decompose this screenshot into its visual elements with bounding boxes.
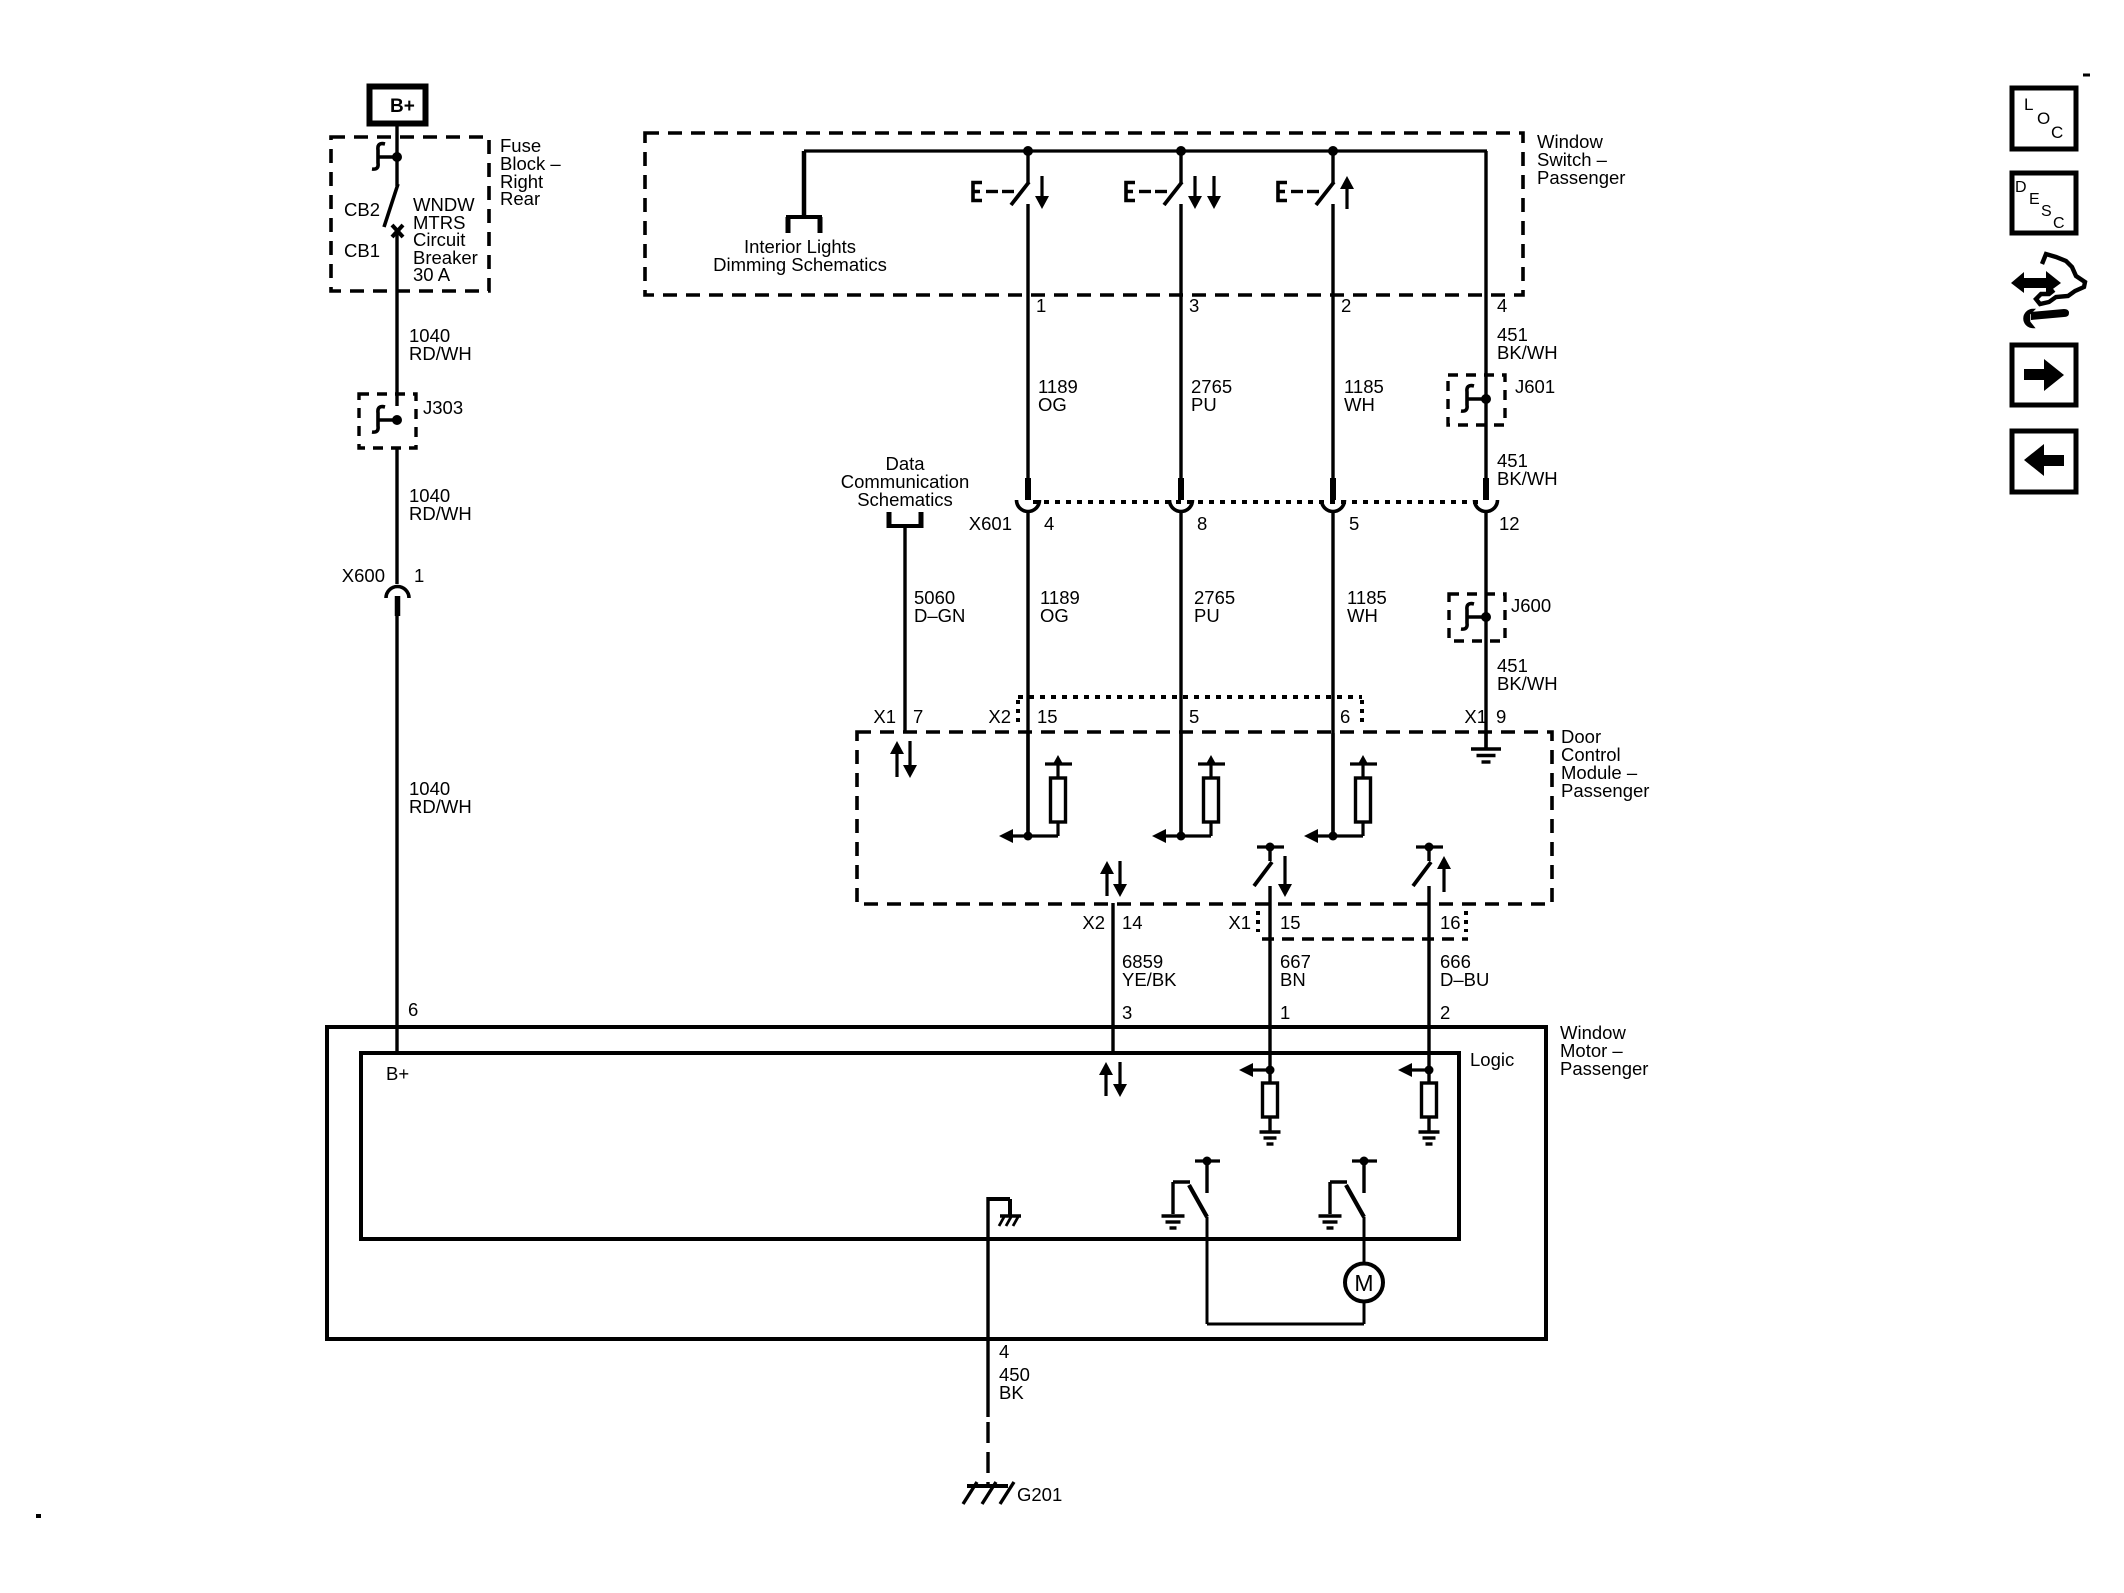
dotted tick right <box>1360 700 1364 727</box>
wire label 1040 RD/WH (3) <box>409 778 472 817</box>
svg-text:D–GN: D–GN <box>914 605 965 626</box>
output switch at pin 15 (down) <box>1254 843 1292 898</box>
svg-text:Dimming Schematics: Dimming Schematics <box>713 254 887 275</box>
svg-text:3: 3 <box>1122 1002 1132 1023</box>
svg-text:X601: X601 <box>969 513 1012 534</box>
svg-text:S: S <box>2041 203 2052 220</box>
svg-text:Passenger: Passenger <box>1560 1058 1648 1079</box>
svg-text:3: 3 <box>1189 295 1199 316</box>
svg-text:5: 5 <box>1189 706 1199 727</box>
wire label 1040 RD/WH (2) <box>409 485 472 524</box>
svg-text:6: 6 <box>408 999 418 1020</box>
bidirectional arrows at pin 14 <box>1100 861 1127 897</box>
icon back arrow box <box>2012 431 2076 492</box>
svg-text:X1: X1 <box>1228 912 1251 933</box>
driver unit with pull-up resistor at pin 5 <box>1152 733 1225 843</box>
dotted tick X1 <box>1256 911 1260 932</box>
window express-down switch SW2 <box>1126 151 1221 209</box>
wire from switch1 to motor bottom <box>1207 1217 1364 1324</box>
window down switch SW1 <box>973 151 1049 209</box>
wire 1040 RD/WH segment 1 <box>395 231 398 406</box>
svg-text:1: 1 <box>1036 295 1046 316</box>
wire 1040 RD/WH segment 2 <box>395 448 398 584</box>
wire 1040 RD/WH segment 3 <box>395 616 398 1052</box>
wire label 451 BK/WH (below J600) <box>1497 655 1558 694</box>
svg-text:15: 15 <box>1037 706 1058 727</box>
motor M <box>1345 1264 1383 1302</box>
battery terminal B+ <box>370 87 426 124</box>
svg-text:Logic: Logic <box>1470 1049 1514 1070</box>
svg-text:RD/WH: RD/WH <box>409 503 472 524</box>
svg-text:X600: X600 <box>342 565 385 586</box>
svg-text:PU: PU <box>1191 394 1217 415</box>
svg-text:PU: PU <box>1194 605 1220 626</box>
wire label 2765 PU <box>1191 376 1232 415</box>
svg-text:15: 15 <box>1280 912 1301 933</box>
wire 450 BK solid <box>986 1341 989 1417</box>
svg-text:X2: X2 <box>1082 912 1105 933</box>
svg-text:X1: X1 <box>873 706 896 727</box>
logic ground flag <box>988 1197 1021 1341</box>
bus junction dot node 2 <box>1176 146 1186 156</box>
svg-text:RD/WH: RD/WH <box>409 343 472 364</box>
wire label 1185 WH (2) <box>1347 587 1387 626</box>
connector X600 pin 1 <box>386 587 409 617</box>
bidirectional arrows at motor pin 3 <box>1099 1062 1127 1097</box>
svg-text:5: 5 <box>1349 513 1359 534</box>
svg-text:G201: G201 <box>1017 1484 1062 1505</box>
svg-text:Schematics: Schematics <box>857 489 953 510</box>
input network at motor pin 2 <box>1398 1063 1440 1144</box>
interior lights dimming schematics off-page fork <box>786 217 822 233</box>
wire label 2765 PU (2) <box>1194 587 1235 626</box>
wire switch2 to motor top <box>1363 1217 1366 1263</box>
svg-text:4: 4 <box>1497 295 1507 316</box>
svg-text:BN: BN <box>1280 969 1306 990</box>
svg-text:2: 2 <box>1440 1002 1450 1023</box>
wire 451 BK/WH below X601 <box>1484 512 1487 749</box>
svg-text:Passenger: Passenger <box>1561 780 1649 801</box>
dotted tick right of 16 <box>1464 911 1468 932</box>
wire label 451 BK/WH (above J601) <box>1497 324 1558 363</box>
page mark tick <box>2083 74 2090 77</box>
svg-text:9: 9 <box>1496 706 1506 727</box>
svg-text:Passenger: Passenger <box>1537 167 1625 188</box>
door module connector dotted line <box>1018 695 1362 699</box>
motor relay switch 2 <box>1319 1157 1378 1229</box>
svg-text:M: M <box>1354 1270 1373 1296</box>
svg-text:2: 2 <box>1341 295 1351 316</box>
wire label 667 BN <box>1280 951 1311 990</box>
splice hook J601 <box>1461 386 1491 412</box>
svg-text:8: 8 <box>1197 513 1207 534</box>
driver unit with pull-up resistor at pin 6 <box>1304 733 1377 843</box>
wire 5060 D-GN <box>903 528 906 733</box>
window switch label <box>1537 131 1625 188</box>
svg-text:L: L <box>2024 95 2033 114</box>
icon LOC box <box>2012 88 2076 149</box>
splice hook J600 <box>1461 604 1491 630</box>
connector X601 terminal pin 4 <box>1017 478 1040 512</box>
svg-text:4: 4 <box>1044 513 1054 534</box>
breaker name label <box>413 194 478 285</box>
svg-text:14: 14 <box>1122 912 1143 933</box>
svg-text:16: 16 <box>1440 912 1461 933</box>
svg-text:X1: X1 <box>1464 706 1487 727</box>
door control module - passenger (dashed box) <box>857 732 1552 904</box>
fuse block - right rear (dashed box) <box>331 137 489 291</box>
page mark dot bottom left <box>36 1514 41 1518</box>
svg-text:Rear: Rear <box>500 188 540 209</box>
svg-text:BK/WH: BK/WH <box>1497 342 1558 363</box>
wire label 450 BK <box>999 1364 1030 1403</box>
wire 450 BK dashed <box>986 1422 989 1484</box>
svg-text:OG: OG <box>1038 394 1067 415</box>
wire label 6859 YE/BK <box>1122 951 1177 990</box>
svg-text:7: 7 <box>913 706 923 727</box>
output switch at pin 16 (up) <box>1413 843 1451 893</box>
icon DESC box <box>2012 173 2076 233</box>
window switch - passenger (dashed box) <box>645 133 1523 295</box>
ground inside module at pin 9 <box>1471 733 1501 762</box>
svg-text:BK: BK <box>999 1382 1024 1403</box>
svg-text:BK/WH: BK/WH <box>1497 673 1558 694</box>
svg-text:E: E <box>2029 191 2040 208</box>
junction J601 dashed box <box>1448 375 1505 425</box>
window motor label <box>1560 1022 1648 1079</box>
bidirectional data arrows at pin 7 <box>890 741 917 778</box>
window motor - passenger (outer box) <box>327 1027 1546 1339</box>
junction J600 dashed box <box>1449 594 1505 641</box>
fuse block label <box>500 135 561 209</box>
wire switch pin 4 <box>1484 182 1487 480</box>
connector row X601 dotted line <box>1033 500 1481 504</box>
svg-text:C: C <box>2053 215 2065 232</box>
connector X601 terminal pin 12 <box>1475 478 1498 512</box>
wire label 1040 RD/WH <box>409 325 472 364</box>
door control module label <box>1561 726 1649 801</box>
connector X601 terminal pin 5 <box>1322 478 1345 512</box>
svg-text:1: 1 <box>414 565 424 586</box>
wire label 666 D-BU <box>1440 951 1489 990</box>
window up switch SW3 <box>1278 151 1354 209</box>
svg-text:BK/WH: BK/WH <box>1497 468 1558 489</box>
junction J303 dashed box <box>359 394 416 448</box>
wire switch pin 3 <box>1179 204 1182 480</box>
svg-text:CB1: CB1 <box>344 240 380 261</box>
wire label 1189 OG (2) <box>1040 587 1080 626</box>
svg-text:1: 1 <box>1280 1002 1290 1023</box>
svg-text:CB2: CB2 <box>344 199 380 220</box>
svg-text:C: C <box>2051 123 2063 142</box>
svg-text:WH: WH <box>1344 394 1375 415</box>
wire switch pin 2 <box>1331 204 1334 480</box>
driver unit with pull-up resistor at pin 15 <box>999 733 1072 843</box>
icon schematic navigation (arrows and wrench) <box>2011 254 2085 327</box>
svg-text:J303: J303 <box>423 397 463 418</box>
dashed connector X1 lower line <box>1262 937 1468 940</box>
wire 6859 from pin 14 <box>1111 903 1114 1052</box>
icon forward arrow box <box>2012 345 2076 405</box>
wire 1189 OG below X601 <box>1026 512 1029 836</box>
svg-text:O: O <box>2037 109 2050 128</box>
wire label 1185 WH <box>1344 376 1384 415</box>
svg-text:30 A: 30 A <box>413 264 451 285</box>
bus junction dot node 1 <box>1023 146 1033 156</box>
input network at motor pin 1 <box>1239 1063 1281 1144</box>
svg-text:4: 4 <box>999 1341 1009 1362</box>
logic box <box>361 1053 1459 1239</box>
data communication off-page fork <box>889 512 921 528</box>
svg-text:X2: X2 <box>988 706 1011 727</box>
bus junction dot node 3 <box>1328 146 1338 156</box>
connector X601 terminal pin 8 <box>1170 478 1193 512</box>
wire label 5060 D-GN <box>914 587 965 626</box>
svg-text:D–BU: D–BU <box>1440 969 1489 990</box>
circuit breaker switch arm CB2/CB1 <box>384 184 403 237</box>
dotted tick left X2 <box>1016 700 1020 727</box>
svg-text:WH: WH <box>1347 605 1378 626</box>
splice hook J303 <box>372 407 402 433</box>
ground G201 <box>963 1482 1014 1504</box>
svg-text:RD/WH: RD/WH <box>409 796 472 817</box>
wire 1185 WH below X601 <box>1331 512 1334 836</box>
svg-text:OG: OG <box>1040 605 1069 626</box>
svg-text:B+: B+ <box>386 1063 409 1084</box>
splice clip in fuse block <box>372 144 402 170</box>
svg-text:YE/BK: YE/BK <box>1122 969 1177 990</box>
wire switch pin 1 <box>1026 204 1029 480</box>
motor relay switch 1 <box>1162 1157 1221 1229</box>
svg-text:6: 6 <box>1340 706 1350 727</box>
wire 667 from pin 15 <box>1268 886 1271 1070</box>
interior lights label <box>713 236 887 275</box>
svg-text:D: D <box>2015 179 2027 196</box>
wire 2765 PU below X601 <box>1179 512 1182 836</box>
wire label 451 BK/WH (below J601) <box>1497 450 1558 489</box>
svg-text:B+: B+ <box>390 96 415 117</box>
svg-text:J600: J600 <box>1511 595 1551 616</box>
wire from B+ into fuse block <box>395 123 398 186</box>
wire 666 from pin 16 <box>1427 886 1430 1070</box>
switch supply bus wire <box>804 151 1487 216</box>
svg-text:J601: J601 <box>1515 376 1555 397</box>
wire label 1189 OG <box>1038 376 1078 415</box>
data communication schematics label <box>841 453 970 510</box>
svg-text:12: 12 <box>1499 513 1520 534</box>
